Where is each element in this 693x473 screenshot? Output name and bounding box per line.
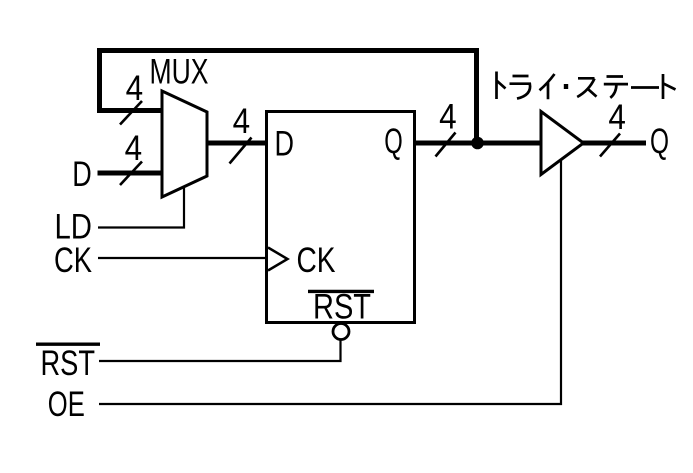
clock input triangle [268,248,288,271]
svg-text:4: 4 [125,129,143,168]
svg-text:Q: Q [650,122,669,161]
svg-text:CK: CK [297,241,336,280]
wire: RST control [99,339,341,361]
RST bubble (active-low) [333,324,349,340]
wire: tri-state output bus [581,141,646,146]
wire: CK control [98,257,267,259]
label tri-state (katakana) : ー [631,86,659,89]
svg-text:4: 4 [126,69,144,108]
wire: LD control [98,187,184,228]
label tri-state (katakana) : ト [663,74,676,99]
flip-flop register U2 [267,112,415,323]
bus width slash (MUX output bus) [230,138,252,164]
svg-text:RST: RST [41,344,96,383]
label tri-state (katakana) : ラ [510,76,531,99]
svg-text:4: 4 [439,97,457,136]
svg-text:D: D [275,124,295,163]
label tri-state (katakana) : ト [497,72,506,100]
svg-text:RST: RST [313,287,371,326]
overline of RST input label [36,343,100,346]
svg-text:D: D [72,155,92,194]
mux U1 [162,91,207,197]
wire: D input bus [98,171,165,176]
bus width slash (feedback bus) [120,101,142,125]
svg-text:4: 4 [608,98,626,137]
bus width slash (D input bus) [120,162,142,186]
node A junction dot [471,137,484,150]
label tri-state (katakana) : イ [540,74,555,99]
wire: MUX output bus to register D [205,141,268,146]
label tri-state (katakana) : テ [604,77,628,98]
tri-state buffer U3 [541,112,584,175]
svg-text:OE: OE [48,385,85,424]
wire: OE control [99,158,561,405]
wire: feedback bus from node A to MUX upper input [100,51,477,144]
svg-text:MUX: MUX [150,53,209,92]
svg-text:4: 4 [233,102,251,141]
wire: register Q output bus [413,141,543,146]
bus width slash (register output bus) [436,133,456,157]
bus width slash (final output bus) [600,134,620,157]
label tri-state (katakana) : ス [577,78,596,97]
svg-text:Q: Q [384,122,403,161]
label tri-state (katakana) : middle dot [564,84,568,89]
overline of pin RST [308,290,374,293]
svg-text:CK: CK [54,241,92,280]
